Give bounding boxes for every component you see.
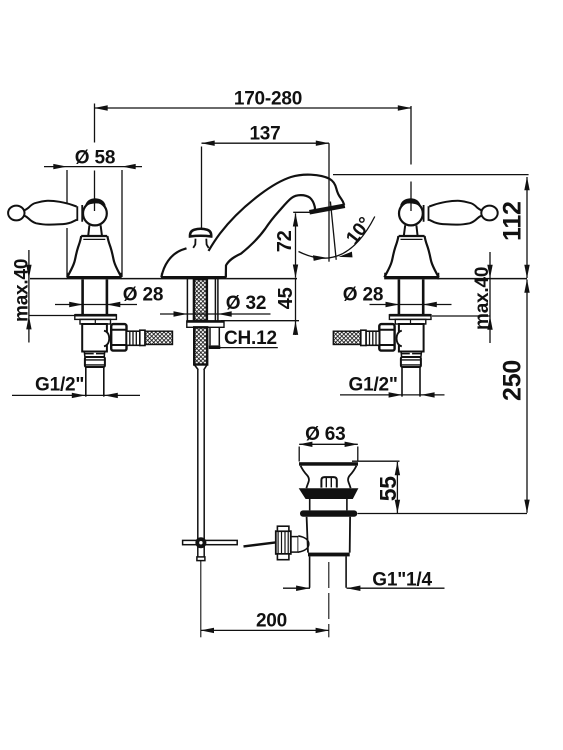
stem	[83, 280, 107, 315]
dimension diameter 32	[160, 311, 271, 316]
svg-text:200: 200	[256, 611, 287, 632]
svg-text:max.40: max.40	[11, 259, 32, 322]
dimension diameter 58	[44, 164, 142, 277]
svg-text:Ø 28: Ø 28	[123, 285, 163, 306]
drain assembly	[276, 462, 359, 637]
spout base bottom bar	[161, 276, 227, 279]
deck washer (black)	[300, 510, 357, 516]
dimension 55	[352, 461, 400, 513]
step	[84, 352, 104, 358]
dimension 72 and 45	[221, 213, 299, 335]
svg-text:Ø 58: Ø 58	[75, 148, 115, 169]
bell	[67, 236, 121, 277]
port dome	[104, 331, 109, 347]
CH12 tube	[210, 327, 219, 345]
neck	[88, 225, 102, 236]
valve body	[82, 324, 107, 352]
dimension 137	[202, 143, 330, 262]
svg-text:Ø 32: Ø 32	[226, 293, 266, 314]
thumbscrew	[276, 531, 291, 554]
hex nut	[111, 324, 126, 351]
wire deck line	[30, 278, 527, 280]
rod end cap	[197, 557, 205, 561]
svg-text:max.40: max.40	[472, 267, 493, 330]
svg-text:137: 137	[249, 123, 280, 144]
svg-text:250: 250	[499, 360, 527, 401]
spout base mound left	[161, 248, 186, 277]
lever	[8, 206, 24, 221]
linkage rod to drain	[244, 542, 278, 546]
svg-text:Ø 28: Ø 28	[343, 285, 383, 306]
ridges	[127, 331, 140, 345]
dimension diameter 63	[299, 444, 358, 461]
tailpiece	[86, 367, 104, 397]
pop-up linkage	[183, 537, 278, 637]
braided hose	[145, 331, 173, 344]
left handle assembly	[8, 198, 172, 396]
shank threaded upper	[194, 279, 207, 321]
svg-text:170-280: 170-280	[234, 88, 302, 109]
flange	[75, 315, 117, 320]
dimension max.40 right	[432, 252, 493, 343]
svg-text:Ø 63: Ø 63	[305, 424, 345, 445]
svg-text:112: 112	[499, 201, 527, 241]
bell mouth sides	[301, 466, 357, 489]
clevis shaft	[291, 537, 298, 553]
spout flange	[187, 321, 224, 327]
dimension 112	[333, 175, 529, 278]
svg-text:CH.12: CH.12	[224, 328, 277, 349]
knob stem	[193, 239, 208, 248]
collar nut	[85, 357, 105, 367]
dimension 200	[201, 629, 329, 631]
tailpipe	[310, 556, 347, 587]
washer	[80, 319, 111, 324]
dimension 250	[358, 280, 528, 514]
dimension diameter 28 left	[55, 302, 137, 307]
spout inner line	[226, 195, 315, 277]
dimension 10 degrees	[299, 202, 375, 261]
shank tube edges	[187, 279, 218, 321]
dimension 170-280	[95, 104, 412, 212]
spout outer line	[209, 175, 345, 251]
tailpipe centerline	[328, 562, 330, 637]
hose collar	[140, 330, 145, 345]
lift rod	[198, 370, 204, 557]
flange bar	[299, 462, 358, 466]
knob cap	[190, 229, 211, 237]
horizontal bar	[183, 540, 238, 544]
bell bottom bar	[67, 276, 122, 279]
right handle assembly (mirror)	[333, 198, 497, 396]
svg-text:72: 72	[274, 230, 296, 252]
pivot ball	[195, 537, 206, 548]
svg-text:G1/2": G1/2"	[35, 375, 84, 396]
svg-text:45: 45	[275, 287, 297, 309]
drain body sides	[307, 517, 351, 553]
clevis dome	[298, 536, 309, 552]
body bottom band	[308, 553, 350, 557]
dimension max.40 left	[26, 250, 74, 343]
plug knob	[321, 477, 336, 488]
plug washer (black trapezoid)	[299, 488, 359, 499]
shank threaded lower	[194, 327, 207, 364]
rod lower centerline	[200, 561, 202, 638]
spout body	[161, 175, 345, 557]
ball	[83, 202, 107, 226]
aerator flare	[310, 206, 345, 213]
svg-text:55: 55	[375, 476, 401, 502]
dimension diameter 28 right	[370, 302, 452, 307]
upper body band	[310, 499, 347, 510]
